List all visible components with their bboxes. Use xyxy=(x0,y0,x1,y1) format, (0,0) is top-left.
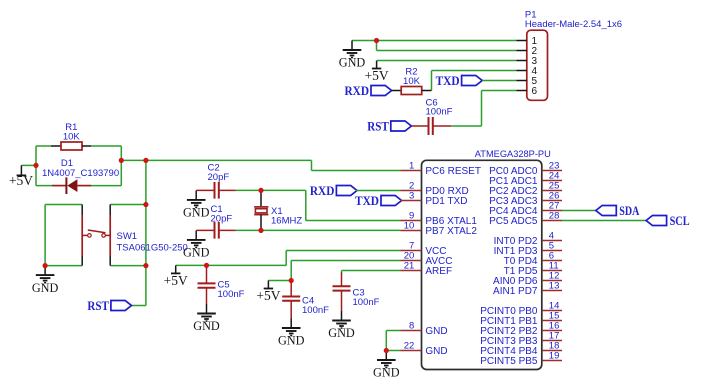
ic right pin stubs xyxy=(542,171,562,361)
net flag RXD (top) xyxy=(345,83,392,98)
junction X1 bottom xyxy=(258,228,263,233)
wire X1 bottom to IC pin10 xyxy=(236,229,401,231)
wire pin2 net xyxy=(377,41,517,51)
wire SCL xyxy=(562,220,647,222)
svg-text:ATMEGA328P-PU: ATMEGA328P-PU xyxy=(475,149,551,160)
wire SDA xyxy=(562,210,596,212)
svg-text:TSA061G50-250: TSA061G50-250 xyxy=(117,243,188,254)
wire pin4 net xyxy=(432,71,517,91)
resistor R2 xyxy=(392,87,432,95)
capacitor C6 xyxy=(411,117,451,135)
svg-text:PB7 XTAL2: PB7 XTAL2 xyxy=(425,226,477,237)
wire C2 to X1 top xyxy=(236,189,261,191)
svg-text:20pF: 20pF xyxy=(208,172,230,183)
svg-text:10K: 10K xyxy=(63,132,81,143)
label C6 xyxy=(426,98,438,109)
power +5V (left) xyxy=(9,165,33,188)
svg-text:SCL: SCL xyxy=(670,213,690,228)
net flag RXD (IC pin2) xyxy=(310,183,357,198)
svg-text:28: 28 xyxy=(549,211,560,222)
switch SW1 contacts xyxy=(82,230,110,237)
svg-text:8: 8 xyxy=(409,321,414,332)
ground (IC) xyxy=(373,351,400,380)
label ATMEGA328P-PU xyxy=(475,149,551,160)
power +5V (C5) xyxy=(164,265,188,288)
wire TXD to pin3 xyxy=(400,200,402,202)
label 10K (R2) xyxy=(403,76,421,87)
wire VCC net xyxy=(176,251,401,266)
ground (C4) xyxy=(278,319,305,348)
svg-text:16MHZ: 16MHZ xyxy=(271,216,302,227)
svg-text:20pF: 20pF xyxy=(211,214,233,225)
svg-text:10: 10 xyxy=(404,221,415,232)
wire SW1 right loop xyxy=(110,160,146,265)
label 100nF (C3) xyxy=(353,297,380,308)
label 100nF (C4) xyxy=(302,305,329,316)
junction C4 xyxy=(289,278,294,283)
wire R1 top loop xyxy=(36,146,121,186)
svg-text:19: 19 xyxy=(549,351,560,362)
net flag TXD (IC pin3) xyxy=(355,193,402,208)
net flag SCL xyxy=(646,213,690,228)
ground (C1) xyxy=(183,230,210,259)
svg-text:PD1 TXD: PD1 TXD xyxy=(425,196,467,207)
svg-text:3: 3 xyxy=(409,191,414,202)
svg-text:PC5 ADC5: PC5 ADC5 xyxy=(489,216,538,227)
wire SW1 to RST xyxy=(131,266,146,306)
connector P1 body xyxy=(527,30,548,100)
label C4 xyxy=(302,296,314,307)
crystal X1 xyxy=(254,190,268,230)
ic left pin stubs xyxy=(401,171,422,351)
svg-text:TXD: TXD xyxy=(355,193,379,208)
switch SW1 body pins xyxy=(82,205,110,266)
svg-text:GND: GND xyxy=(328,325,355,340)
svg-text:100nF: 100nF xyxy=(218,289,245,300)
label X1 xyxy=(271,206,283,217)
svg-text:GND: GND xyxy=(425,326,447,337)
net flag RST (top) xyxy=(367,119,411,134)
power +5V (C4) xyxy=(256,281,280,304)
junction +5V tap xyxy=(33,163,38,168)
connector P1 pins 1-6 stubs xyxy=(517,41,527,91)
label 20pF (C2) xyxy=(208,172,230,183)
wire pin3 net (+5V) xyxy=(377,60,517,62)
ic left pin names xyxy=(425,166,481,357)
label SW1 xyxy=(117,231,138,242)
junction R1 loop right xyxy=(119,158,124,163)
svg-text:GND: GND xyxy=(278,333,305,348)
junction X1 top xyxy=(258,188,263,193)
capacitor C5 xyxy=(198,265,216,304)
wire GND pins net xyxy=(386,331,400,351)
svg-text:RXD: RXD xyxy=(310,183,335,198)
resistor R1 xyxy=(51,142,91,150)
wire AREF net xyxy=(342,271,401,274)
svg-text:Header-Male-2.54_1x6: Header-Male-2.54_1x6 xyxy=(525,19,622,30)
svg-text:10K: 10K xyxy=(403,76,421,87)
label 100nF (C5) xyxy=(218,289,245,300)
svg-text:RST: RST xyxy=(367,119,389,134)
svg-text:SDA: SDA xyxy=(619,203,639,218)
junction on pin1 wire xyxy=(374,38,379,43)
wire pin1 net (GND to P1 pin 1) xyxy=(352,40,517,42)
label C2 xyxy=(208,163,220,174)
ground (SW1) xyxy=(32,266,59,295)
svg-text:SW1: SW1 xyxy=(117,231,138,242)
svg-text:1N4007_C193790: 1N4007_C193790 xyxy=(42,168,119,179)
svg-text:+5V: +5V xyxy=(365,68,389,83)
net flag RST (bottom) xyxy=(87,298,131,313)
connector P1 pin numbers xyxy=(532,36,538,97)
label P1 xyxy=(525,10,537,21)
label C5 xyxy=(218,280,230,291)
net flag TXD (top) xyxy=(436,73,483,88)
wire SW1 left loop xyxy=(45,205,82,266)
svg-text:GND: GND xyxy=(425,346,447,357)
label R1 xyxy=(65,122,77,133)
capacitor C2 xyxy=(196,182,236,199)
wire RXD to pin2 xyxy=(356,190,400,192)
wire AVCC net xyxy=(291,261,400,281)
svg-text:6: 6 xyxy=(532,86,538,97)
svg-text:PCINT5 PB5: PCINT5 PB5 xyxy=(480,356,538,367)
label R2 xyxy=(405,67,417,78)
svg-text:100nF: 100nF xyxy=(302,305,329,316)
svg-text:RST: RST xyxy=(87,298,109,313)
svg-text:100nF: 100nF xyxy=(426,107,453,118)
svg-text:GND: GND xyxy=(193,318,220,333)
ground (top, near P1) xyxy=(339,41,366,70)
wire X1 top to IC pin9 xyxy=(261,190,401,220)
wire TXD to P1 pin5 xyxy=(482,80,516,82)
junction SW1 branch xyxy=(143,158,148,163)
label TSA061G50-250 (SW1) xyxy=(117,243,188,254)
svg-text:GND: GND xyxy=(183,205,210,220)
wire +5V to C4 xyxy=(268,280,291,282)
svg-text:GND: GND xyxy=(183,245,210,260)
wire to IC pin1 xyxy=(121,160,400,170)
svg-text:TXD: TXD xyxy=(436,73,460,88)
capacitor C4 xyxy=(282,281,300,319)
svg-text:+5V: +5V xyxy=(9,173,33,188)
label 20pF (C1) xyxy=(211,214,233,225)
capacitor C1 xyxy=(196,222,236,239)
svg-text:21: 21 xyxy=(404,261,415,272)
ic U1 ATMEGA328P-PU body xyxy=(422,160,542,369)
junction IC gnd xyxy=(384,348,389,353)
capacitor C3 xyxy=(333,273,351,312)
svg-text:1: 1 xyxy=(409,161,414,172)
label Header-Male-2.54_1x6 xyxy=(525,19,622,30)
junction C5 xyxy=(204,263,209,268)
diode D1 xyxy=(52,177,91,194)
wire +5V stub (left) xyxy=(21,164,36,166)
label C3 xyxy=(353,288,365,299)
power +5V (P1 pin3) xyxy=(365,61,389,84)
wire pin6 net xyxy=(451,91,517,127)
svg-text:RXD: RXD xyxy=(345,83,370,98)
svg-text:AIN1 PD7: AIN1 PD7 xyxy=(493,286,538,297)
label D1 xyxy=(61,158,73,169)
label 1N4007_C193790 (D1) xyxy=(42,168,119,179)
svg-text:13: 13 xyxy=(549,281,560,292)
ic right pin numbers xyxy=(549,161,560,362)
svg-text:100nF: 100nF xyxy=(353,297,380,308)
svg-text:AREF: AREF xyxy=(425,266,452,277)
label 16MHZ (X1) xyxy=(271,216,302,227)
ground (C5) xyxy=(193,304,220,333)
svg-text:GND: GND xyxy=(32,280,59,295)
svg-text:22: 22 xyxy=(404,341,415,352)
svg-text:GND: GND xyxy=(339,55,366,70)
svg-text:+5V: +5V xyxy=(256,288,280,303)
junction SW1 bottom right xyxy=(143,263,148,268)
label 10K (R1) xyxy=(63,132,81,143)
svg-text:GND: GND xyxy=(373,365,400,380)
junction SW1 top right xyxy=(143,202,148,207)
ic left pin numbers xyxy=(404,161,415,352)
svg-text:PC6 RESET: PC6 RESET xyxy=(425,166,481,177)
ground (C2) xyxy=(183,190,210,219)
label C1 xyxy=(211,204,223,215)
net flag SDA xyxy=(596,203,640,218)
label 100nF (C6) xyxy=(426,107,453,118)
junction SW1 gnd xyxy=(43,263,48,268)
ground (C3) xyxy=(328,311,355,340)
svg-text:+5V: +5V xyxy=(164,273,188,288)
ic right pin names xyxy=(480,166,538,367)
